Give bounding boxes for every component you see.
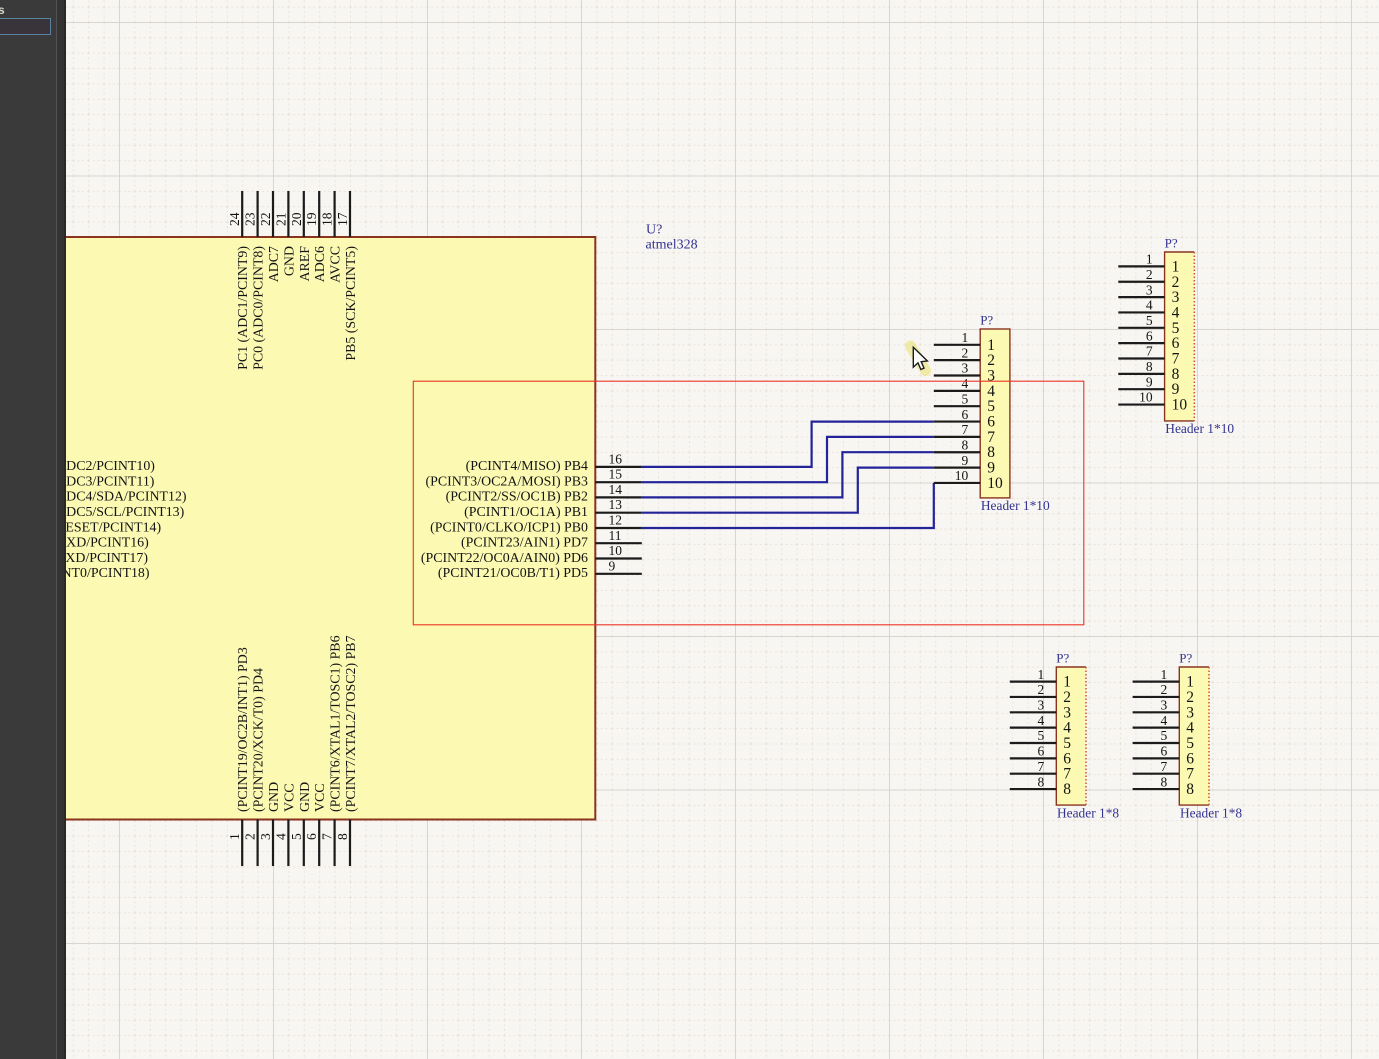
svg-text:(PCINT20/XCK/T0) PD4: (PCINT20/XCK/T0) PD4: [252, 668, 267, 812]
svg-text:VCC: VCC: [313, 783, 328, 812]
svg-text:GND: GND: [298, 782, 313, 812]
svg-text:8: 8: [335, 833, 350, 840]
svg-text:ADC7: ADC7: [267, 246, 282, 282]
svg-text:3: 3: [1146, 282, 1153, 297]
svg-text:1: 1: [961, 330, 968, 345]
svg-text:PB5 (SCK/PCINT5): PB5 (SCK/PCINT5): [344, 246, 359, 361]
svg-text:17: 17: [335, 212, 350, 226]
svg-text:PC0 (ADC0/PCINT8): PC0 (ADC0/PCINT8): [252, 246, 267, 370]
svg-text:5: 5: [1161, 728, 1168, 743]
svg-text:AVCC: AVCC: [329, 246, 344, 283]
svg-text:8: 8: [1063, 781, 1071, 798]
svg-text:20: 20: [289, 212, 304, 226]
svg-text:19: 19: [304, 212, 319, 226]
svg-text:7: 7: [1146, 344, 1153, 359]
svg-text:4: 4: [273, 833, 288, 840]
svg-text:12: 12: [609, 513, 623, 528]
svg-text:3: 3: [1161, 698, 1168, 713]
svg-text:4: 4: [1038, 713, 1045, 728]
svg-text:21: 21: [273, 213, 288, 227]
svg-text:10: 10: [1172, 397, 1188, 414]
svg-text:16: 16: [609, 451, 623, 466]
svg-text:2: 2: [243, 833, 258, 840]
svg-text:4: 4: [961, 376, 968, 391]
svg-text:1: 1: [1146, 252, 1153, 267]
svg-text:Header 1*8: Header 1*8: [1057, 805, 1119, 820]
svg-text:6: 6: [1161, 744, 1168, 759]
svg-text:(PCINT21/OC0B/T1) PD5: (PCINT21/OC0B/T1) PD5: [438, 566, 588, 581]
svg-text:8: 8: [1161, 774, 1168, 789]
svg-text:5: 5: [1146, 313, 1153, 328]
svg-text:8: 8: [1146, 359, 1153, 374]
svg-text:P?: P?: [1165, 236, 1178, 251]
svg-text:22: 22: [258, 213, 273, 227]
svg-text:6: 6: [1146, 328, 1153, 343]
svg-text:(PCINT1/OC1A) PB1: (PCINT1/OC1A) PB1: [464, 505, 588, 520]
svg-text:(PCINT23/AIN1) PD7: (PCINT23/AIN1) PD7: [461, 536, 588, 551]
svg-text:PC1 (ADC1/PCINT9): PC1 (ADC1/PCINT9): [236, 246, 251, 370]
svg-text:1: 1: [227, 833, 242, 840]
svg-text:(PCINT2/SS/OC1B) PB2: (PCINT2/SS/OC1B) PB2: [446, 490, 588, 505]
svg-text:10: 10: [955, 468, 969, 483]
svg-text:23: 23: [243, 212, 258, 226]
svg-text:7: 7: [961, 422, 968, 437]
svg-text:11: 11: [609, 528, 622, 543]
svg-text:6: 6: [961, 407, 968, 422]
svg-text:7: 7: [320, 833, 335, 840]
svg-text:14: 14: [609, 482, 623, 497]
svg-text:(PCINT4/MISO) PB4: (PCINT4/MISO) PB4: [466, 459, 588, 474]
svg-text:9: 9: [1146, 374, 1153, 389]
svg-text:AREF: AREF: [298, 246, 313, 282]
svg-text:5: 5: [1038, 728, 1045, 743]
svg-text:9: 9: [609, 558, 616, 573]
svg-text:2: 2: [1038, 682, 1045, 697]
svg-text:GND: GND: [282, 246, 297, 276]
svg-text:5: 5: [961, 391, 968, 406]
svg-text:(PCINT3/OC2A/MOSI) PB3: (PCINT3/OC2A/MOSI) PB3: [426, 475, 589, 490]
svg-text:10: 10: [609, 543, 623, 558]
svg-text:atmel328: atmel328: [646, 238, 698, 253]
svg-text:8: 8: [1186, 781, 1194, 798]
svg-text:5: 5: [289, 833, 304, 840]
svg-text:3: 3: [1038, 698, 1045, 713]
svg-text:6: 6: [1038, 744, 1045, 759]
svg-text:10: 10: [1139, 390, 1153, 405]
svg-text:4: 4: [1146, 298, 1153, 313]
svg-text:Header 1*10: Header 1*10: [1165, 421, 1234, 436]
svg-text:24: 24: [227, 212, 242, 226]
svg-text:7: 7: [1161, 759, 1168, 774]
svg-text:3: 3: [258, 833, 273, 840]
svg-text:P?: P?: [1179, 651, 1192, 666]
svg-text:P?: P?: [980, 313, 993, 328]
svg-text:GND: GND: [267, 782, 282, 812]
svg-text:15: 15: [609, 467, 623, 482]
svg-text:18: 18: [320, 212, 335, 226]
svg-text:(PCINT6/XTAL1/TOSC1) PB6: (PCINT6/XTAL1/TOSC1) PB6: [329, 635, 344, 812]
svg-text:(PCINT7/XTAL2/TOSC2) PB7: (PCINT7/XTAL2/TOSC2) PB7: [344, 635, 359, 812]
svg-text:10: 10: [987, 475, 1003, 492]
svg-text:8: 8: [961, 437, 968, 452]
svg-text:3: 3: [961, 361, 968, 376]
svg-text:ADC6: ADC6: [313, 246, 328, 282]
svg-text:8: 8: [1038, 774, 1045, 789]
svg-text:Header 1*10: Header 1*10: [981, 498, 1050, 513]
svg-text:13: 13: [609, 497, 623, 512]
svg-text:7: 7: [1038, 759, 1045, 774]
svg-text:1: 1: [1038, 667, 1045, 682]
svg-text:9: 9: [961, 453, 968, 468]
svg-text:2: 2: [961, 345, 968, 360]
svg-text:1: 1: [1161, 667, 1168, 682]
svg-text:U?: U?: [646, 223, 662, 238]
svg-text:(PCINT22/OC0A/AIN0) PD6: (PCINT22/OC0A/AIN0) PD6: [421, 551, 588, 566]
svg-text:4: 4: [1161, 713, 1168, 728]
svg-text:2: 2: [1161, 682, 1168, 697]
svg-text:2: 2: [1146, 267, 1153, 282]
svg-text:(PCINT19/OC2B/INT1) PD3: (PCINT19/OC2B/INT1) PD3: [236, 647, 251, 812]
svg-text:(PCINT0/CLKO/ICP1) PB0: (PCINT0/CLKO/ICP1) PB0: [430, 520, 588, 535]
svg-text:P?: P?: [1056, 651, 1069, 666]
svg-text:VCC: VCC: [282, 783, 297, 812]
svg-text:6: 6: [304, 833, 319, 840]
svg-text:Header 1*8: Header 1*8: [1180, 805, 1242, 820]
